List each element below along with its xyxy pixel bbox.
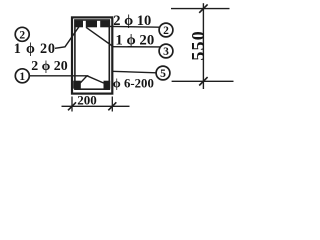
svg-text:2 ϕ 10: 2 ϕ 10 <box>113 13 151 29</box>
svg-text:1 ϕ 20: 1 ϕ 20 <box>115 32 154 48</box>
svg-text:1 ϕ 20: 1 ϕ 20 <box>14 41 56 57</box>
svg-text:2 ϕ 20: 2 ϕ 20 <box>31 59 68 74</box>
svg-text:5: 5 <box>160 68 166 80</box>
svg-text:3: 3 <box>163 46 169 58</box>
svg-text:ϕ 6-200: ϕ 6-200 <box>113 76 154 90</box>
svg-text:550: 550 <box>188 30 208 61</box>
svg-text:2: 2 <box>163 25 169 37</box>
svg-text:2: 2 <box>19 29 25 41</box>
svg-text:1: 1 <box>19 71 25 83</box>
svg-text:200: 200 <box>77 92 97 107</box>
